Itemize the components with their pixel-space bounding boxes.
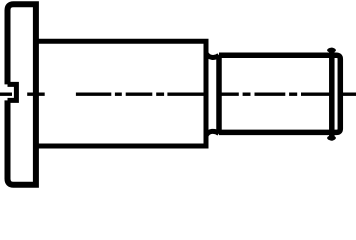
centerline dot 3 <box>243 92 251 95</box>
centerline dash at head face <box>27 92 45 95</box>
chamfer line bottom cap bulge <box>327 136 336 141</box>
centerline dash-dot segments <box>0 92 356 95</box>
threaded cylinder outline with rounded end <box>219 55 340 132</box>
centerline dot 2 <box>156 92 164 95</box>
thread start face line <box>216 55 222 132</box>
centerline dash 6 <box>301 92 331 95</box>
centerline dot 4 <box>289 92 297 95</box>
head slot (drive slot notch) <box>8 84 17 100</box>
centerline left tick <box>0 92 12 95</box>
centerline dash 4 <box>217 92 239 95</box>
centerline long dash 3 <box>167 92 208 95</box>
undercut groove, top <box>206 53 219 57</box>
screw head outline <box>8 4 36 185</box>
chamfer line top cap bulge <box>327 48 336 53</box>
centerline long dash 2 <box>126 92 153 95</box>
centerline right tick <box>340 92 356 95</box>
shoulder (cylindrical body) outline <box>36 41 206 146</box>
centerline long dash 1 <box>76 92 111 95</box>
undercut groove, bottom <box>206 131 219 135</box>
centerline dot 1 <box>115 92 122 95</box>
centerline long dash 5 <box>255 92 286 95</box>
chamfer line at thread end <box>329 50 335 138</box>
